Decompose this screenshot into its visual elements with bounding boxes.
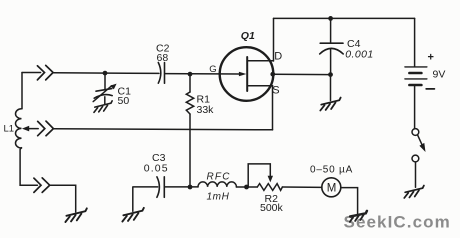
capacitor C3 wire and ground leg: [133, 187, 158, 211]
wire: battery to switch: [414, 86, 416, 128]
svg-text:D: D: [274, 51, 282, 63]
inductor L1: [15, 109, 21, 148]
svg-text:500k: 500k: [260, 202, 284, 214]
svg-text:9V: 9V: [433, 68, 446, 80]
resistor R1: [189, 74, 191, 92]
svg-text:+: +: [428, 51, 434, 63]
svg-text:M: M: [327, 183, 337, 195]
ground (right of meter, over watermark): [350, 211, 367, 222]
wire: meter to ground: [341, 188, 358, 215]
wire: RFC to R2: [236, 186, 257, 188]
wire: C3 to RFC junction: [164, 186, 198, 188]
node: C4 bottom junction dot: [328, 72, 333, 77]
svg-text:Q1: Q1: [241, 30, 255, 42]
wire: gate line from C2 to Q1 gate: [165, 73, 240, 75]
wire: Q1 to C4 junction: [273, 73, 331, 75]
battery B1 9V: [414, 18, 416, 66]
wire: R2 to meter: [282, 186, 322, 188]
capacitor C2: [158, 63, 161, 84]
wire: gate line from connector to C2: [53, 72, 159, 75]
wire: source vertical down: [272, 86, 274, 130]
wire: long source line from tap connector to Q1 source: [53, 129, 272, 130]
wire: C4 junction to ground: [330, 75, 332, 101]
svg-text:0–50 µA: 0–50 µA: [310, 164, 353, 175]
wire: left vertical from corner down to L1: [21, 73, 23, 109]
transistor Q1 (JFET): [220, 47, 274, 101]
ground (left of C3): [122, 208, 143, 222]
node: R1 bottom junction dot: [188, 185, 193, 190]
wire below C1: [104, 97, 106, 104]
wire: top-left gate line from corner to first connector: [22, 72, 41, 74]
coil plug connector (top, double chevron): [37, 65, 53, 80]
svg-text:50: 50: [118, 95, 130, 107]
wire: bottom connector to ground corner: [50, 185, 76, 212]
wire: top rail to battery: [274, 17, 415, 19]
wire: L1 bottom lead down and right: [20, 148, 37, 186]
capacitor C1 plates: [96, 89, 112, 92]
node: RFC/R2 junction dot: [244, 185, 249, 190]
svg-text:RFC: RFC: [207, 172, 231, 183]
node: C4 top junction dot: [328, 16, 333, 21]
svg-text:33k: 33k: [197, 104, 215, 116]
capacitor C3: [157, 177, 160, 198]
capacitor C4: [330, 18, 332, 43]
coil plug connector (middle tap, double chevron): [38, 121, 54, 136]
label battery minus: [426, 88, 434, 90]
ground (under C1): [94, 101, 112, 113]
capacitor C1 adjust arrow: [93, 86, 111, 102]
switch S1: [412, 129, 419, 136]
svg-text:1mH: 1mH: [207, 192, 230, 203]
coil plug connector (bottom, double chevron): [34, 178, 50, 193]
meter M 0-50uA: [322, 178, 341, 197]
tap arrow into L1: [22, 126, 29, 132]
ground (under switch): [404, 185, 424, 198]
svg-text:68: 68: [157, 52, 169, 64]
capacitor C1 (variable) wire from dot: [104, 73, 106, 89]
potentiometer R2 wiper loop: [248, 164, 270, 187]
node: Q1 right junction dot: [270, 72, 275, 77]
svg-text:L1: L1: [4, 124, 15, 135]
node: R1 top junction dot: [188, 72, 193, 77]
wire: drain vertical up to rail: [273, 18, 275, 61]
ground (under C4): [320, 98, 340, 111]
svg-text:0.05: 0.05: [144, 162, 169, 174]
inductor RFC 1mH: [198, 182, 236, 187]
svg-text:G: G: [209, 64, 216, 75]
node: C1 junction dot: [103, 71, 108, 76]
svg-text:S: S: [272, 84, 279, 96]
resistor R2 body: [257, 184, 282, 191]
svg-text:0.001: 0.001: [345, 49, 373, 61]
ground (bottom left): [65, 208, 86, 222]
wire: switch to ground: [415, 162, 417, 187]
